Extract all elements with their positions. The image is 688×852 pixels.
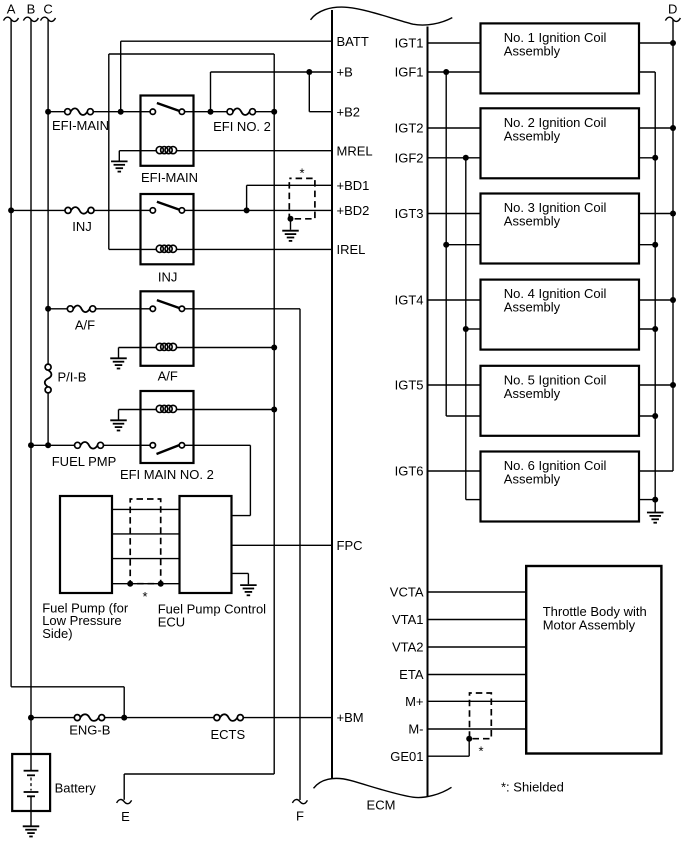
svg-text:*: * <box>142 589 147 604</box>
svg-text:A/F: A/F <box>158 368 178 383</box>
svg-text:EFI-MAIN: EFI-MAIN <box>52 118 109 133</box>
svg-text:EFI NO. 2: EFI NO. 2 <box>213 119 271 134</box>
svg-text:+B2: +B2 <box>337 104 361 119</box>
svg-text:B: B <box>27 2 36 17</box>
svg-text:D: D <box>668 2 677 17</box>
svg-text:*: * <box>478 743 483 758</box>
svg-text:Assembly: Assembly <box>504 44 561 59</box>
svg-text:VTA2: VTA2 <box>392 640 424 655</box>
svg-text:Assembly: Assembly <box>504 386 561 401</box>
svg-text:Assembly: Assembly <box>504 300 561 315</box>
svg-text:Motor Assembly: Motor Assembly <box>543 618 636 633</box>
svg-text:F: F <box>296 808 304 823</box>
svg-text:A: A <box>7 2 16 17</box>
svg-text:IGT2: IGT2 <box>395 121 424 136</box>
svg-text:ECU: ECU <box>158 614 185 629</box>
svg-text:IGF1: IGF1 <box>395 65 424 80</box>
svg-text:IGT5: IGT5 <box>395 378 424 393</box>
svg-text:C: C <box>43 2 52 17</box>
svg-text:A/F: A/F <box>75 318 95 333</box>
svg-text:Assembly: Assembly <box>504 472 561 487</box>
svg-text:FUEL PMP: FUEL PMP <box>52 454 117 469</box>
svg-text:M-: M- <box>408 722 423 737</box>
svg-text:+B: +B <box>337 65 353 80</box>
svg-text:IGT1: IGT1 <box>395 36 424 51</box>
svg-text:FPC: FPC <box>337 538 363 553</box>
svg-text:ETA: ETA <box>399 667 424 682</box>
svg-text:IGT6: IGT6 <box>395 464 424 479</box>
svg-text:ECM: ECM <box>367 798 396 813</box>
svg-text:Assembly: Assembly <box>504 214 561 229</box>
svg-text:BATT: BATT <box>337 34 369 49</box>
svg-text:*: Shielded: *: Shielded <box>501 780 564 795</box>
svg-text:INJ: INJ <box>158 270 178 285</box>
svg-text:Battery: Battery <box>55 781 97 796</box>
svg-text:IREL: IREL <box>337 242 366 257</box>
svg-text:EFI-MAIN: EFI-MAIN <box>141 170 198 185</box>
svg-text:ECTS: ECTS <box>210 727 245 742</box>
svg-text:Assembly: Assembly <box>504 128 561 143</box>
svg-text:GE01: GE01 <box>390 749 423 764</box>
svg-text:VTA1: VTA1 <box>392 612 424 627</box>
svg-text:*: * <box>299 166 304 181</box>
svg-text:INJ: INJ <box>72 219 92 234</box>
svg-text:ENG-B: ENG-B <box>69 723 110 738</box>
svg-text:+BM: +BM <box>337 710 364 725</box>
svg-text:M+: M+ <box>405 694 423 709</box>
svg-text:EFI MAIN NO. 2: EFI MAIN NO. 2 <box>120 467 214 482</box>
svg-text:+BD2: +BD2 <box>337 203 370 218</box>
svg-text:IGF2: IGF2 <box>395 150 424 165</box>
svg-text:P/I-B: P/I-B <box>58 370 87 385</box>
svg-text:+BD1: +BD1 <box>337 178 370 193</box>
svg-text:Side): Side) <box>42 626 72 641</box>
svg-text:VCTA: VCTA <box>390 585 424 600</box>
svg-text:IGT3: IGT3 <box>395 206 424 221</box>
svg-text:MREL: MREL <box>337 143 373 158</box>
svg-text:E: E <box>121 809 130 824</box>
svg-text:IGT4: IGT4 <box>395 293 424 308</box>
